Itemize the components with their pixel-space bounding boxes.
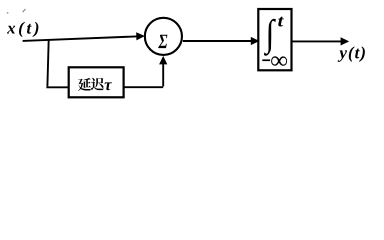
label upper limit t bbox=[278, 17, 284, 27]
delay block box bbox=[69, 67, 124, 97]
wire: x(t) into summer (with arrowhead) bbox=[23, 33, 144, 41]
label lower limit infinity bbox=[271, 56, 287, 66]
wire: riser up into summer (with arrowhead) bbox=[160, 57, 167, 86]
label Sigma bbox=[158, 35, 167, 48]
label integral sign bbox=[264, 19, 276, 56]
label tau bbox=[105, 82, 112, 90]
wire: summer to integrator (with arrowhead) bbox=[183, 38, 258, 45]
label glyph CHI (delay) bbox=[91, 78, 104, 91]
label lower limit minus sign bbox=[262, 59, 270, 61]
integrator block box bbox=[258, 9, 291, 70]
wire: branch into delay block bbox=[46, 86, 69, 88]
input label x(t) bbox=[7, 22, 39, 37]
summer circle bbox=[145, 18, 182, 55]
speck artifacts top-left bbox=[7, 9, 26, 14]
label glyph YAN (delay) bbox=[78, 78, 91, 91]
output label y(t) bbox=[338, 46, 365, 62]
wire: delay block output to riser bbox=[124, 86, 164, 88]
wire: branch down from input node bbox=[47, 39, 48, 86]
wire: integrator output (with arrowhead) bbox=[292, 38, 348, 45]
